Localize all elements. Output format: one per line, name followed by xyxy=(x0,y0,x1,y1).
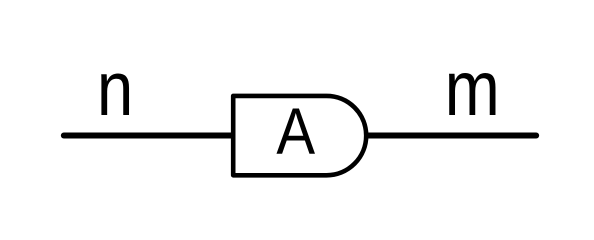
wire right (meter to node m) xyxy=(368,133,536,139)
ammeter A (D-shaped body) xyxy=(233,96,366,175)
label A (meter value) xyxy=(276,96,315,169)
node n label xyxy=(97,46,133,132)
wire left (node n to meter) xyxy=(64,133,232,139)
svg-text:m: m xyxy=(445,45,500,132)
svg-text:A: A xyxy=(276,96,315,169)
node m label xyxy=(445,45,500,132)
svg-text:n: n xyxy=(97,46,133,132)
